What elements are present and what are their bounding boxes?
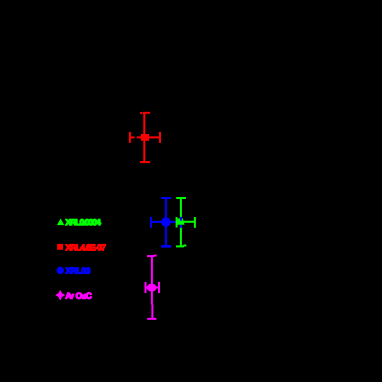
blue right cap upper segment [180,217,182,221]
red top cap left segment [140,112,142,114]
green top cap [176,197,186,199]
red top cap right segment [143,112,150,114]
legend entry 4: magenta star marker [57,291,65,299]
legend entry 2: red square marker [57,244,63,250]
blue horizontal error bar [151,221,181,223]
red horizontal error bar right segment [137,136,160,138]
legend entry 4: magenta label part 2 [76,293,92,299]
green bottom cap [176,245,184,247]
magenta left cap [145,282,147,293]
green vertical error bar [180,198,182,246]
red data point error bars [130,113,160,162]
red vertical error bar [143,113,145,162]
blue left cap [150,217,152,228]
blue circle marker [161,217,171,227]
legend entry 4: magenta label [66,293,74,299]
green left cap [176,217,178,228]
legend entry 3: blue label [66,268,91,274]
magenta right cap [158,282,160,293]
green triangle marker [176,218,184,224]
red bottom cap [140,161,150,163]
magenta bottom cap [147,318,156,320]
magenta top cap [147,255,154,257]
magenta horizontal error bar [146,287,160,289]
blue vertical error bar [165,198,167,246]
magenta top cap right step [154,255,157,257]
magenta vertical error bar lower [151,305,153,319]
red left cap [129,132,131,143]
legend entry 1: green triangle marker [57,219,64,226]
legend entry 2: red label [66,244,106,250]
magenta data point error bars [146,256,160,319]
blue top cap [161,197,171,199]
red square marker [141,134,149,141]
legend entry 3: blue circle marker [57,267,64,274]
green bottom cap right step [183,245,186,247]
red horizontal error bar left segment [130,136,135,138]
green data point error bars [176,198,195,246]
magenta vertical error bar upper [151,256,153,305]
magenta star marker [147,284,156,292]
legend entry 1: green label [66,219,101,225]
blue data point error bars [151,198,181,246]
green right cap [194,217,196,228]
green horizontal error bar [177,221,195,223]
blue bottom cap [161,245,171,248]
red right cap [159,132,161,143]
blue right cap lower segment [180,225,182,228]
